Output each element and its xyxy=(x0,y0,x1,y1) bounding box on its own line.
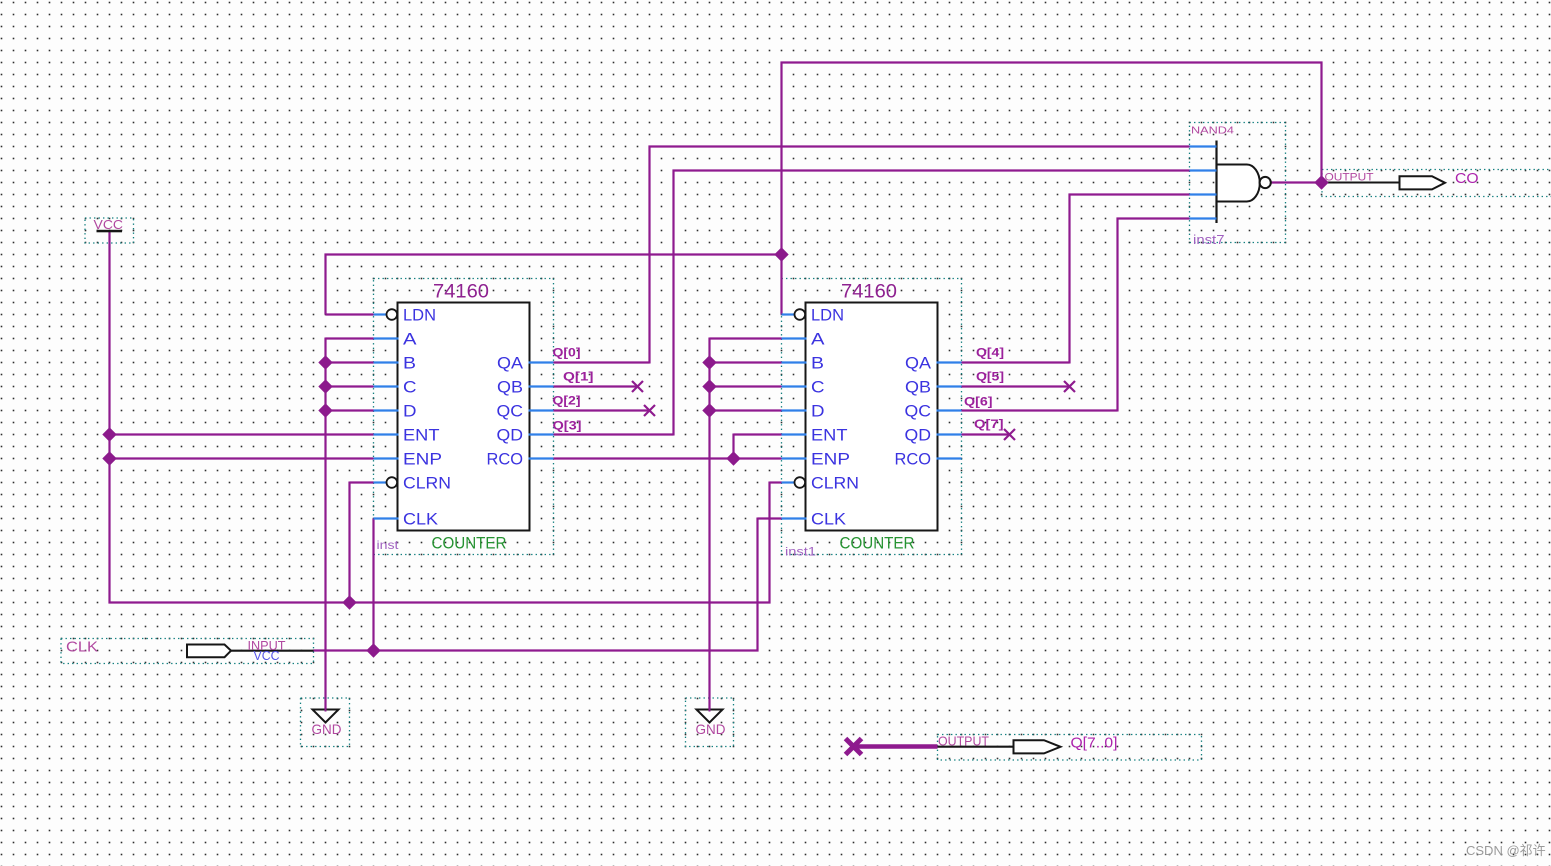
pin stub U1.QD xyxy=(529,433,554,435)
pin stub U2.LDN xyxy=(782,313,795,315)
wire QC of U2 horizontal Q[6] xyxy=(962,409,1118,411)
wire CLK net horizontal y=650 xyxy=(314,649,759,651)
wire Q[0] to NAND input 1 xyxy=(649,145,1190,147)
pin stub U1.CLRN xyxy=(374,481,387,483)
dangling-end X Q[7] xyxy=(1004,429,1015,440)
svg-text:CLK: CLK xyxy=(66,639,98,656)
svg-text:NAND4: NAND4 xyxy=(1191,126,1235,137)
svg-text:ENP: ENP xyxy=(403,450,442,469)
svg-text:Q[7..0]: Q[7..0] xyxy=(1071,736,1118,752)
junction node VCC/CLRN1 xyxy=(342,595,356,609)
svg-text:CO: CO xyxy=(1455,170,1479,187)
svg-text:C: C xyxy=(811,378,825,397)
svg-text:inst1: inst1 xyxy=(785,545,816,559)
junction node NAND out/CO xyxy=(1314,175,1328,189)
NAND4 gate inst7 body xyxy=(1217,164,1260,201)
wire LDN net horizontal y=62 (top) xyxy=(781,61,1323,63)
pin stub U1.D xyxy=(374,409,399,411)
output pin Q[7..0] symbol xyxy=(1014,740,1061,753)
pin stub U2.A xyxy=(782,337,807,339)
selection boundary GND1 xyxy=(301,698,350,747)
svg-text:QA: QA xyxy=(497,354,524,373)
svg-text:GND: GND xyxy=(696,721,726,737)
pin stub U1.C xyxy=(374,385,399,387)
VCC power symbol bar xyxy=(97,230,123,233)
svg-text:CLK: CLK xyxy=(811,510,847,529)
wire VCC to CLRN of U1 horizontal xyxy=(350,481,374,483)
selection boundary NAND4 (inst7) xyxy=(1190,123,1286,243)
selection boundary Q[7..0] output pin xyxy=(938,735,1202,761)
wire RCO of U1 to ENP of U2 xyxy=(554,457,782,459)
svg-text:LDN: LDN xyxy=(811,306,844,325)
pin stub U2.CLK xyxy=(782,517,807,519)
pin stub U1.LDN xyxy=(374,313,387,315)
GND2 ground symbol triangle xyxy=(697,710,723,723)
svg-text:VCC: VCC xyxy=(254,649,280,663)
pin stub U2.D xyxy=(782,409,807,411)
selection boundary CO output pin xyxy=(1322,170,1551,197)
pin stub U2.QB xyxy=(937,385,962,387)
wire QD of U1 horizontal Q[3] xyxy=(554,433,674,435)
svg-text:QC: QC xyxy=(497,402,524,421)
svg-text:ENT: ENT xyxy=(811,426,848,445)
wire QD of U2 Q[7] dangling xyxy=(962,433,1010,435)
wire GND2 to C of U2 xyxy=(710,385,782,387)
svg-text:Q[7]: Q[7] xyxy=(974,417,1004,431)
dangling-end X Q[1] xyxy=(632,381,643,392)
svg-text:RCO: RCO xyxy=(487,450,524,469)
wire QA of U2 horizontal Q[4] xyxy=(962,361,1070,363)
pin stub U1.QB xyxy=(529,385,554,387)
wire QA of U1 horizontal Q[0] xyxy=(554,361,650,363)
wire CLK net to CLK of U2 vertical xyxy=(756,518,758,652)
svg-text:CLK: CLK xyxy=(403,510,439,529)
wire Q[6] to NAND input 4 xyxy=(1117,217,1190,219)
wire ENT of U2 horizontal xyxy=(734,433,782,435)
inversion bubble U1.CLRN xyxy=(387,477,398,488)
svg-text:Q[3]: Q[3] xyxy=(553,419,582,433)
svg-text:A: A xyxy=(811,330,825,349)
svg-text:COUNTER: COUNTER xyxy=(432,534,507,553)
junction node RCO1/ENT2 xyxy=(726,451,740,465)
wire VCC to CLRN of U2 horizontal xyxy=(770,481,782,483)
wire LDN net vertical at x=781 xyxy=(780,62,782,315)
svg-text:ENT: ENT xyxy=(403,426,440,445)
GND1 ground symbol triangle xyxy=(313,710,339,723)
NAND4 input bar xyxy=(1215,141,1217,224)
junction node LDN net xyxy=(774,247,788,261)
wire GND2 net vertical xyxy=(708,338,710,712)
wire CO output pin lead xyxy=(1322,181,1400,183)
wire QD of U1 vertical to NAND in2 xyxy=(672,170,674,436)
junction node VCC/ENP1 xyxy=(102,451,116,465)
wire LDN net horizontal y=254 xyxy=(325,253,783,255)
svg-text:RCO: RCO xyxy=(895,450,932,469)
svg-text:74160: 74160 xyxy=(433,281,489,303)
svg-text:Q[6]: Q[6] xyxy=(964,395,993,409)
svg-text:D: D xyxy=(811,402,825,421)
svg-text:A: A xyxy=(403,330,417,349)
NAND4 output bubble xyxy=(1260,177,1271,188)
junction node GND1/D1 xyxy=(318,403,332,417)
svg-text:Q[1]: Q[1] xyxy=(563,370,594,384)
pin stub U1.CLK xyxy=(374,517,399,519)
svg-text:Q[4]: Q[4] xyxy=(976,346,1004,360)
junction node GND2/B2 xyxy=(702,355,716,369)
svg-text:74160: 74160 xyxy=(841,281,897,303)
pin stub U1.QC xyxy=(529,409,554,411)
wire CLK net to CLK of U1 vertical xyxy=(372,519,374,651)
pin stub U1.B xyxy=(374,361,399,363)
inversion bubble U2.CLRN xyxy=(795,477,806,488)
svg-text:VCC: VCC xyxy=(94,218,124,232)
selection boundary counter U1 (inst) xyxy=(374,279,554,555)
junction node GND1/B1 xyxy=(318,355,332,369)
wire NAND output to junction xyxy=(1271,181,1322,183)
pin stub U2.ENP xyxy=(782,457,807,459)
svg-text:Q[0]: Q[0] xyxy=(553,346,581,360)
wire VCC net horizontal rail y=602 xyxy=(109,601,771,603)
pin stub U1.RCO xyxy=(529,457,554,459)
wire GND1 net vertical xyxy=(324,338,326,712)
wire QA of U1 vertical to NAND in1 xyxy=(648,146,650,364)
svg-text:CLRN: CLRN xyxy=(403,474,451,493)
selection boundary VCC symbol xyxy=(85,218,134,243)
bus wire Q[7..0] xyxy=(854,744,938,749)
wire Q[4] to NAND input 3 xyxy=(1069,193,1190,195)
wire GND2 to B of U2 xyxy=(710,361,782,363)
svg-text:Q[2]: Q[2] xyxy=(553,394,581,408)
svg-text:Q[5]: Q[5] xyxy=(976,370,1004,384)
svg-text:inst: inst xyxy=(377,538,400,552)
svg-text:QD: QD xyxy=(905,426,932,445)
pin stub U2.QD xyxy=(937,433,962,435)
pin stub U2.C xyxy=(782,385,807,387)
dangling-end X Q[5] xyxy=(1064,381,1075,392)
wire GND1 to A of U1 xyxy=(326,337,374,339)
output pin CO symbol xyxy=(1400,176,1446,189)
wire VCC to CLRN of U2 vertical xyxy=(768,482,770,604)
wire VCC net vertical from VCC symbol xyxy=(108,231,110,604)
wire VCC to ENP of U1 xyxy=(110,457,374,459)
pin stub U2.RCO xyxy=(937,457,962,459)
dangling bus X Q[7..0] xyxy=(846,739,862,755)
wire CLK net to CLK of U2 horizontal xyxy=(758,517,782,519)
svg-text:LDN: LDN xyxy=(403,306,436,325)
junction node GND2/D2 xyxy=(702,403,716,417)
wire NAND output down to junction xyxy=(1320,62,1322,183)
svg-text:B: B xyxy=(811,354,824,373)
wire GND1 to B of U1 xyxy=(326,361,374,363)
wire LDN net vertical at x=325 xyxy=(324,254,326,315)
svg-text:inst7: inst7 xyxy=(1193,233,1225,247)
svg-text:QC: QC xyxy=(905,402,932,421)
junction node CLK/CLK1 xyxy=(366,643,380,657)
svg-text:QB: QB xyxy=(497,378,523,397)
pin stub NAND4 input 1 xyxy=(1190,145,1217,147)
svg-text:D: D xyxy=(403,402,417,421)
pin stub NAND4 input 4 xyxy=(1190,217,1217,219)
wire GND1 to D of U1 xyxy=(326,409,374,411)
wire QC of U2 vertical to NAND in4 xyxy=(1116,218,1118,412)
wire VCC to ENT of U1 xyxy=(110,433,374,435)
input pin CLK symbol xyxy=(187,645,231,658)
wire GND2 to D of U2 xyxy=(710,409,782,411)
svg-text:C: C xyxy=(403,378,417,397)
svg-text:CSDN @祁许: CSDN @祁许 xyxy=(1466,843,1546,858)
wire QA of U2 vertical to NAND in3 xyxy=(1068,194,1070,364)
pin stub U2.CLRN xyxy=(782,481,795,483)
wire Q[3] to NAND input 2 xyxy=(673,169,1190,171)
svg-text:B: B xyxy=(403,354,416,373)
svg-text:OUTPUT: OUTPUT xyxy=(938,735,989,749)
svg-text:QB: QB xyxy=(905,378,931,397)
counter 74160 U1 body xyxy=(398,303,530,531)
pin stub U2.QC xyxy=(937,409,962,411)
wire GND2 to A of U2 xyxy=(710,337,782,339)
inversion bubble U1.LDN xyxy=(387,309,398,320)
pin stub NAND4 input 2 xyxy=(1190,169,1217,171)
wire QB of U2 Q[5] dangling xyxy=(962,385,1070,387)
svg-text:GND: GND xyxy=(312,721,342,737)
selection boundary counter U2 (inst1) xyxy=(782,279,962,555)
pin stub U2.ENT xyxy=(782,433,807,435)
junction node VCC/ENT1 xyxy=(102,427,116,441)
wire QC of U1 Q[2] dangling xyxy=(554,409,650,411)
wire ENT of U2 tap vertical xyxy=(732,434,734,459)
pin stub NAND4 input 3 xyxy=(1190,193,1217,195)
wire GND1 to C of U1 xyxy=(326,385,374,387)
selection boundary GND2 xyxy=(686,698,734,747)
pin stub U2.B xyxy=(782,361,807,363)
svg-text:OUTPUT: OUTPUT xyxy=(1325,172,1374,184)
pin stub U1.QA xyxy=(529,361,554,363)
wire QB of U1 Q[1] dangling xyxy=(554,385,638,387)
wire Q[7..0] output pin lead xyxy=(938,746,1014,748)
dangling-end X Q[2] xyxy=(644,405,655,416)
pin stub U1.ENT xyxy=(374,433,399,435)
svg-text:CLRN: CLRN xyxy=(811,474,859,493)
svg-text:QA: QA xyxy=(905,354,932,373)
svg-text:ENP: ENP xyxy=(811,450,850,469)
junction node GND1/C1 xyxy=(318,379,332,393)
wire CLK input pin lead xyxy=(231,650,314,652)
svg-text:COUNTER: COUNTER xyxy=(840,534,915,553)
wire VCC to CLRN of U1 vertical xyxy=(348,482,350,604)
pin stub U1.A xyxy=(374,337,399,339)
wire LDN net to LDN of U1 xyxy=(326,313,374,315)
svg-text:QD: QD xyxy=(497,426,524,445)
pin stub U2.QA xyxy=(937,361,962,363)
selection boundary CLK input pin xyxy=(61,639,314,664)
counter 74160 U2 body xyxy=(806,303,938,531)
pin stub U1.ENP xyxy=(374,457,399,459)
inversion bubble U2.LDN xyxy=(795,309,806,320)
junction node GND2/C2 xyxy=(702,379,716,393)
